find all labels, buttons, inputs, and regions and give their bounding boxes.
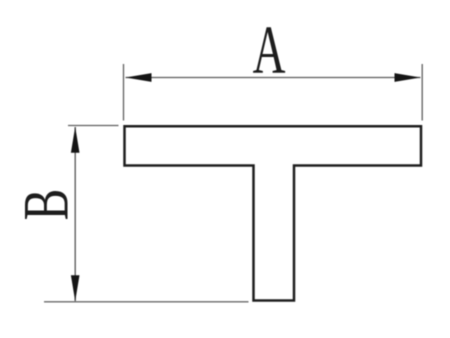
wire: extension line top of dimension B [68,125,119,127]
wire: extension line bottom of dimension B [44,301,249,303]
node: arrowhead A left [126,73,152,82]
svg-text:B: B [10,189,82,221]
wire: extension line right of dimension A [421,64,423,121]
wire: dimension line A [126,77,421,79]
T-profile outline [125,126,422,300]
node: arrowhead B top [71,127,80,153]
wire: dimension line B [74,127,76,301]
svg-text:A: A [253,11,286,88]
node: arrowhead B bottom [71,275,80,301]
wire: extension line left of dimension A [123,64,125,121]
node: arrowhead A right [395,73,421,82]
